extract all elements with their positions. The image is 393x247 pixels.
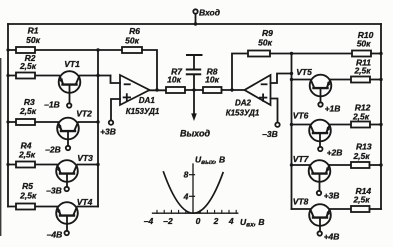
wire R1-R6 row (8, 49, 122, 51)
svg-text:2,5к: 2,5к (352, 112, 370, 122)
svg-text:2,5к: 2,5к (19, 61, 37, 71)
wire right input bus (380, 24, 382, 209)
svg-text:50к: 50к (125, 35, 139, 45)
wire R9 feedback drop (232, 54, 248, 91)
svg-text:4: 4 (228, 216, 234, 226)
node VT7 base terminal (317, 191, 321, 195)
svg-text:R13: R13 (356, 141, 372, 151)
scan edge artifact (0, 58, 1, 236)
node DA1 +3V terminal (109, 120, 113, 124)
node VT6 base terminal (318, 147, 322, 151)
svg-text:2,5к: 2,5к (19, 106, 37, 116)
wire input stub (195, 14, 197, 24)
wire R4/VT3 row (8, 164, 58, 166)
graph axes (192, 164, 194, 213)
resistor R5 (16, 204, 35, 210)
wire R9-R10 row (270, 53, 352, 55)
resistor R13 (351, 162, 370, 168)
wire VT3 base stem (66, 174, 68, 187)
svg-text:2,5к: 2,5к (18, 149, 36, 159)
svg-text:8: 8 (184, 170, 189, 180)
svg-text:2: 2 (213, 216, 219, 226)
svg-text:Вход: Вход (199, 8, 220, 18)
svg-text:10к: 10к (167, 75, 181, 85)
transistor VT3 (56, 160, 78, 182)
wire VT5/R11 row (292, 79, 311, 81)
resistor R6 (122, 47, 142, 53)
transistor VT5 (310, 75, 332, 97)
svg-text:–2: –2 (163, 216, 173, 226)
transistor VT8 (309, 204, 331, 226)
wire summing bus A (DA1 inverting node) (97, 50, 99, 207)
transistor VT1 (59, 71, 81, 93)
resistor R3 (16, 119, 35, 125)
svg-text:2,5к: 2,5к (352, 151, 370, 161)
transistor VT7 (309, 160, 331, 182)
svg-text:К153УД1: К153УД1 (126, 107, 160, 116)
svg-text:VT7: VT7 (293, 154, 310, 164)
svg-text:50к: 50к (258, 37, 272, 47)
svg-text:0: 0 (196, 216, 201, 226)
svg-text:–1В: –1В (44, 100, 60, 110)
resistor R12 (351, 122, 370, 128)
wire top bus (8, 23, 381, 25)
wire VT2 base stem (67, 131, 69, 146)
graph x ticks (157, 210, 236, 213)
capacitor C1 plates (187, 69, 200, 71)
svg-text:2,5к: 2,5к (353, 66, 371, 76)
svg-text:–3В: –3В (262, 129, 278, 139)
svg-text:+1В: +1В (325, 104, 341, 114)
svg-text:DA2: DA2 (235, 99, 252, 108)
wire R5/VT4 row (8, 206, 58, 208)
op-amp DA1 (120, 75, 150, 105)
wire capacitor top stem (193, 55, 195, 68)
svg-text:–2В: –2В (45, 145, 61, 155)
svg-text:–3В: –3В (46, 186, 62, 196)
node VT4 base terminal (65, 231, 69, 235)
resistor R1 (16, 47, 35, 53)
wire VT8/R14 row (292, 208, 311, 210)
svg-text:10к: 10к (205, 75, 219, 85)
svg-text:VT6: VT6 (293, 111, 309, 121)
resistor R9 (248, 51, 270, 57)
svg-text:50к: 50к (26, 35, 40, 45)
node VT8 base terminal (318, 231, 322, 235)
wire left input bus (7, 24, 9, 207)
wire VT5 base stem (320, 88, 322, 102)
node VT1 base terminal (67, 103, 71, 107)
transistor VT4 (56, 202, 78, 224)
resistor R11 (351, 77, 370, 83)
svg-text:VT8: VT8 (293, 197, 309, 207)
svg-text:VT1: VT1 (64, 59, 80, 69)
wire output arrow (193, 90, 195, 115)
svg-text:VT5: VT5 (296, 67, 312, 77)
wire DA1 output row (150, 89, 167, 91)
node VT2 base terminal (66, 146, 70, 150)
svg-text:VT3: VT3 (77, 153, 93, 163)
resistor R7 (166, 87, 185, 93)
svg-text:–4: –4 (144, 216, 154, 226)
svg-text:VT2: VT2 (76, 109, 92, 119)
resistor R4 (16, 162, 35, 168)
svg-text:+4В: +4В (324, 232, 340, 242)
svg-text:2,5к: 2,5к (352, 194, 370, 204)
transistor VT2 (57, 118, 79, 140)
wire R6 to DA1 output (142, 50, 157, 90)
resistor R2 (16, 73, 35, 79)
node VT5 base terminal (318, 102, 322, 106)
wire R3/VT2 row (8, 121, 58, 123)
wire DA2 noninverting input (271, 99, 278, 123)
svg-text:+2В: +2В (327, 148, 343, 158)
svg-text:VT4: VT4 (77, 197, 93, 207)
svg-text:DA1: DA1 (139, 96, 156, 105)
svg-text:R1: R1 (28, 26, 39, 36)
svg-text:2,5к: 2,5к (19, 190, 37, 200)
wire DA1 noninverting input (111, 99, 120, 120)
svg-text:+3В: +3В (100, 127, 116, 137)
wire VT4 base stem (66, 216, 68, 231)
svg-text:Выход: Выход (180, 129, 210, 139)
wire VT7 base stem (319, 174, 321, 191)
capacitor C1 top bar (187, 54, 202, 56)
transistor VT6 (309, 120, 331, 142)
node VT3 base terminal (65, 187, 69, 191)
wire R8 to DA2 output (222, 89, 245, 91)
wire VT7/R13 row (292, 164, 310, 166)
wire DA2 inverting input jog (271, 74, 292, 84)
resistor R8 (203, 87, 222, 93)
wire VT8 base stem (319, 218, 321, 232)
resistor R10 (352, 51, 371, 57)
resistor R14 (351, 206, 370, 212)
node input terminal (193, 9, 197, 13)
svg-text:4: 4 (183, 192, 189, 202)
graph y ticks (190, 174, 195, 176)
wire DA1 inverting input jog (111, 76, 121, 84)
svg-text:+3В: +3В (324, 191, 340, 201)
wire capacitor bottom stem (193, 75, 195, 90)
wire VT6 base stem (319, 133, 321, 147)
wire R2/VT1 row (8, 75, 59, 77)
graph parabola curve (164, 172, 224, 213)
wire VT6/R12 row (292, 124, 311, 126)
wire summing bus B (DA2 inverting node) (291, 54, 293, 210)
node DA2 -3V terminal (275, 123, 279, 127)
svg-text:–4В: –4В (47, 230, 63, 240)
wire R7 to R8 (185, 89, 203, 91)
svg-text:50к: 50к (357, 38, 371, 48)
wire VT1 base stem (69, 85, 71, 104)
op-amp DA2 (245, 75, 271, 105)
svg-text:К153УД1: К153УД1 (226, 109, 260, 118)
